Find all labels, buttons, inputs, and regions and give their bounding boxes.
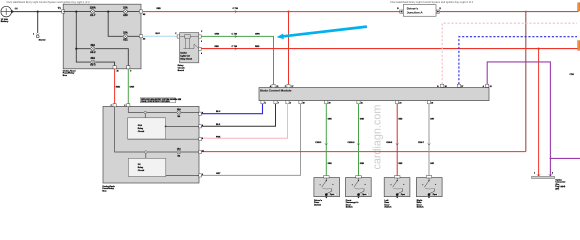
label door switch 3 (384, 199, 392, 208)
svg-text:Circuit: Circuit (178, 66, 185, 69)
svg-text:25: 25 (117, 71, 119, 73)
svg-text:GRN: GRN (130, 87, 135, 89)
starter connector (33, 34, 46, 42)
battery 12 Volt (1, 6, 18, 23)
svg-text:C 730: C 730 (232, 34, 238, 36)
svg-text:A1-3: A1-3 (90, 64, 96, 67)
svg-text:G1A: G1A (138, 124, 143, 127)
junction box Driver's Junction A (397, 5, 441, 17)
internal wire G1A to BLK pin (166, 125, 199, 127)
wire GRN relay to BCM (201, 36, 273, 84)
junction B (107, 11, 109, 13)
fuse 30A A1-3 (90, 57, 96, 66)
svg-text:24: 24 (399, 101, 401, 104)
wire branch to fuse A1-3 (76, 49, 114, 66)
wire muted red down right side (525, 12, 527, 152)
svg-text:120A: 120A (90, 7, 96, 10)
junction red drop to BCM (287, 11, 289, 13)
pin 32 BCM top right (486, 84, 489, 87)
svg-text:Board: Board (178, 70, 185, 72)
svg-text:PAGE 2 FOR WITHOUT KEYLESS: PAGE 2 FOR WITHOUT KEYLESS (141, 100, 170, 103)
wire GRN under-hood to under-dash (127, 69, 129, 104)
internal wire G2 to GRY pin (166, 174, 199, 176)
svg-text:6: 6 (202, 174, 203, 176)
svg-text:Open: Open (330, 194, 334, 196)
svg-text:C108-3: C108-3 (315, 142, 321, 144)
svg-text:6: 6 (265, 102, 266, 104)
wire RED relay to right edge (201, 48, 577, 50)
svg-text:RED: RED (116, 87, 121, 89)
svg-text:26: 26 (431, 102, 433, 104)
pin 20 BCM bottom (325, 101, 328, 104)
pin 7 BCM bottom (274, 101, 277, 104)
svg-text:C753: C753 (570, 74, 574, 76)
junction C (75, 48, 77, 50)
label under-dash box (102, 186, 115, 193)
pin 10 BCM bottom (299, 101, 302, 104)
svg-text:Junction A: Junction A (407, 10, 424, 14)
svg-text:2: 2 (552, 173, 553, 175)
svg-text:Circuit: Circuit (138, 169, 145, 172)
fuse 120A A1-7 (90, 7, 96, 17)
fuse 15A B2 (177, 147, 181, 157)
svg-text:7: 7 (278, 102, 279, 104)
wire RED down to option connector (538, 49, 540, 176)
svg-text:Civic Hatchback Entry Light Co: Civic Hatchback Entry Light Control Syst… (7, 0, 91, 4)
pin T1 under-hood box (62, 10, 65, 13)
pin 8 under-dash right (199, 138, 202, 141)
pin F under-dash right (199, 112, 202, 115)
pin C17 BCM top (287, 84, 290, 87)
svg-text:cardiagn.com: cardiagn.com (372, 105, 384, 170)
label door switch 1 (314, 200, 323, 206)
body control module (259, 88, 489, 101)
internal wire to PNK pin (128, 138, 199, 140)
svg-text:Interior: Interior (180, 51, 187, 54)
wire blue dashed BCM to right edge (459, 37, 577, 84)
label door switch 2 (346, 199, 360, 208)
svg-text:A2-2: A2-2 (90, 51, 96, 54)
junction red option drop (538, 48, 540, 50)
svg-text:A21: A21 (123, 39, 128, 42)
svg-text:Lights Cut: Lights Cut (180, 55, 190, 58)
svg-text:20: 20 (329, 102, 331, 104)
internal wire green feed row (128, 106, 199, 112)
wire to starter (37, 12, 39, 33)
label interior lights cut relay circuit (180, 51, 192, 60)
svg-text:RED: RED (255, 46, 260, 48)
wire BLU BCM to under-dash (201, 104, 263, 114)
svg-text:Switch: Switch (384, 205, 392, 208)
wire GRY BCM to door switch 4 (428, 104, 430, 176)
svg-text:15A: 15A (123, 7, 128, 10)
svg-text:4: 4 (534, 172, 535, 175)
pin 24 BCM bottom (396, 101, 399, 104)
pin 9 under-hood bottom (127, 66, 130, 69)
pin C under-dash top red (113, 104, 116, 107)
svg-text:BLU: BLU (216, 111, 221, 113)
label door switch 4 (417, 199, 425, 208)
pin 6 BCM bottom (261, 101, 264, 104)
svg-text:RED: RED (215, 46, 220, 48)
wire BLU pale to relay board (143, 35, 178, 37)
svg-text:Switch: Switch (417, 205, 425, 208)
relay contact G1A (144, 111, 147, 118)
wire BLK BCM to under-dash (201, 104, 276, 127)
annotation arrow cyan (277, 27, 367, 39)
svg-text:3: 3 (201, 41, 202, 43)
svg-text:9: 9 (130, 71, 131, 73)
svg-text:Battery: Battery (1, 20, 9, 23)
connector C108-10 (348, 119, 365, 165)
svg-text:Circuit: Circuit (138, 130, 145, 133)
svg-text:4: 4 (201, 52, 202, 55)
pin 11 under-dash right (199, 150, 202, 153)
label relay circuit board (178, 65, 185, 72)
svg-text:C108-5: C108-5 (386, 142, 392, 144)
svg-text:17: 17 (291, 86, 293, 88)
svg-text:C108-10: C108-10 (348, 142, 355, 144)
svg-text:15A: 15A (123, 31, 128, 34)
under-hood fuse/relay box (63, 4, 141, 69)
svg-text:10: 10 (303, 102, 305, 104)
svg-text:15A: 15A (177, 108, 181, 111)
connector C108-5 (386, 119, 403, 165)
svg-text:21: 21 (276, 86, 278, 88)
svg-text:PNK: PNK (216, 136, 221, 138)
fuse 15A A21 (123, 31, 128, 41)
wire battery to under-hood box (14, 11, 62, 13)
wire GRN BCM to door switch 1 (325, 104, 327, 176)
svg-text:Open: Open (433, 194, 437, 196)
wire RED under-hood to under-dash (114, 69, 116, 104)
door switch 4 (416, 176, 442, 199)
svg-text:GRN: GRN (328, 119, 333, 121)
wire RED BCM to door switch 3 (396, 104, 398, 176)
wire RED down to BCM pin (288, 12, 290, 85)
pin 27 BCM top (457, 84, 460, 87)
relay circuit board box (180, 33, 199, 63)
svg-text:RED: RED (157, 8, 162, 10)
wire branch to fuse A21 (108, 12, 140, 37)
pin A21 BCM top (272, 84, 275, 87)
svg-text:4: 4 (202, 124, 203, 127)
under-dash fuse/relay box (103, 106, 199, 183)
note box (140, 98, 182, 103)
svg-text:A1-7: A1-7 (90, 14, 96, 17)
svg-text:BLU: BLU (156, 33, 161, 35)
svg-text:Switch: Switch (346, 205, 354, 208)
off-page tab top right (578, 3, 580, 11)
relay contact G2 (145, 151, 148, 159)
door switch 1 (314, 176, 340, 199)
junction muted red (525, 11, 527, 13)
wire PNK BCM to under-dash (201, 104, 288, 138)
svg-text:8: 8 (290, 102, 291, 104)
pin 8 BCM bottom (286, 101, 289, 104)
svg-text:GRN: GRN (360, 163, 365, 165)
wire RED A8 to junction A (143, 11, 400, 13)
svg-text:8: 8 (202, 138, 203, 140)
svg-text:30A: 30A (91, 44, 96, 47)
internal wire red feed row (115, 106, 199, 152)
interior lights cut relay internals (180, 35, 199, 49)
svg-text:BLK: BLK (216, 124, 221, 126)
svg-text:C 736: C 736 (232, 46, 238, 48)
svg-text:Body Control Module: Body Control Module (260, 88, 292, 92)
svg-text:GRN: GRN (215, 34, 220, 36)
svg-text:Switch: Switch (314, 203, 322, 206)
bracket pins 28-27 (441, 86, 461, 88)
svg-text:(6P): (6P) (555, 188, 559, 190)
svg-text:GRN: GRN (328, 163, 333, 165)
pin A8 under-hood box (139, 10, 142, 13)
svg-text:Civic Hatchback Entry Light Co: Civic Hatchback Entry Light Control Syst… (390, 0, 474, 4)
door switch 3 (384, 176, 410, 199)
pin A6 under-hood box (139, 35, 142, 38)
connector C730 top (233, 8, 239, 13)
connector C108-3 (315, 119, 332, 165)
svg-text:GRY: GRY (216, 173, 221, 175)
wire GRY BCM to under-dash (201, 104, 301, 176)
svg-text:11: 11 (202, 151, 204, 153)
svg-text:Relay: Relay (138, 167, 144, 169)
svg-text:21: 21 (361, 102, 363, 104)
pin relay board left (177, 35, 180, 38)
option connector for fog light (532, 172, 555, 179)
pin C relay board right top (199, 35, 202, 38)
svg-text:Relay: Relay (138, 128, 144, 130)
junction battery/starter (37, 11, 39, 13)
G1A relay circuit (128, 118, 166, 139)
wire RED under-dash to muted red vertical (201, 151, 526, 153)
svg-text:(+): (+) (15, 8, 18, 10)
svg-text:32: 32 (490, 86, 492, 88)
svg-text:C108-7: C108-7 (418, 142, 424, 144)
wire branch to fuse A2-2 (76, 12, 128, 67)
pin 21 BCM bottom (357, 101, 360, 104)
pin 4 under-dash right (199, 125, 202, 128)
svg-text:Starter: Starter (39, 39, 46, 42)
svg-text:27: 27 (461, 86, 463, 88)
label option connector (555, 179, 565, 191)
svg-text:C 730: C 730 (233, 8, 239, 10)
svg-text:30A: 30A (91, 57, 96, 60)
connector C108-7 (418, 119, 435, 165)
node G1A output (165, 126, 167, 128)
door switch 2 (346, 176, 372, 199)
pin 28 BCM top (441, 84, 444, 87)
label under-hood box (63, 70, 76, 77)
pin 6 under-dash right (199, 174, 202, 177)
svg-text:GRN: GRN (255, 34, 260, 36)
pin C under-dash top green (127, 104, 130, 107)
svg-text:Open: Open (401, 194, 405, 196)
junction purple (550, 158, 552, 160)
pin 26 BCM bottom (427, 101, 430, 104)
svg-text:A16: A16 (123, 14, 128, 17)
fuse 15A A16 (123, 7, 128, 17)
wire pink dashed BCM to right edge (442, 23, 577, 84)
internal bus wire (63, 11, 140, 13)
svg-text:GRN: GRN (360, 119, 365, 121)
svg-text:Open: Open (362, 194, 366, 196)
wire PUR BCM to right edge and option connector (487, 62, 550, 176)
wire GRN BCM to door switch 2 (358, 104, 360, 176)
G2 relay circuit (128, 158, 165, 176)
svg-text:15A: 15A (177, 147, 181, 150)
pin 25 under-hood bottom (113, 66, 116, 69)
junction A (75, 11, 77, 13)
off-page tab right mid (578, 41, 580, 51)
wire muted red junction A to right edge (440, 11, 579, 13)
svg-text:1: 1 (33, 34, 34, 36)
fuse 15A B6 (177, 108, 181, 118)
pin A relay board right bottom (199, 47, 202, 50)
fuse 30A A2-2 (90, 44, 96, 54)
svg-text:F: F (202, 113, 203, 115)
svg-text:Relay Circuit: Relay Circuit (180, 58, 192, 61)
